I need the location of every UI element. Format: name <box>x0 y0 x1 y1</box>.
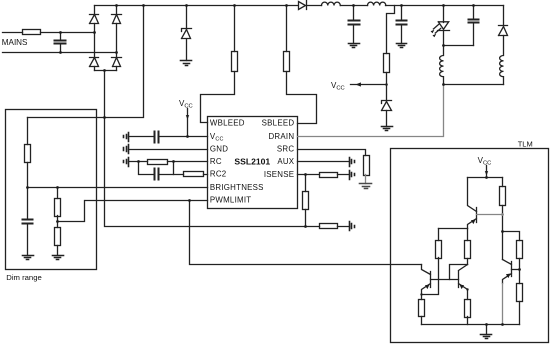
junction node (401.5,5.5) <box>400 4 403 7</box>
wire R-tlm4 column <box>438 229 440 241</box>
junction node (486.5,177.5) <box>485 176 488 179</box>
ground right isense bottom <box>350 222 355 231</box>
wire rc row <box>129 161 208 163</box>
LED D7 <box>438 22 450 31</box>
wire cap4 link <box>444 45 474 47</box>
ground right isense row <box>350 171 355 180</box>
capacitor X-cap C1 <box>60 33 62 53</box>
svg-text:WBLEED: WBLEED <box>210 119 245 128</box>
wire tlm ground stem <box>486 325 488 335</box>
resistor R-sbleed column <box>286 6 288 52</box>
wire sbleed bend <box>287 72 317 124</box>
wire transformer bottom link <box>444 84 504 86</box>
ground under ZD1 <box>181 61 192 66</box>
junction node (305.5,226.5) <box>304 225 307 228</box>
wire tlm5 to T3 collector node <box>467 259 469 265</box>
svg-text:BRIGHTNESS: BRIGHTNESS <box>210 183 264 192</box>
junction node (60.5,32.5) <box>59 31 62 34</box>
wire rc parallel drop <box>139 162 174 175</box>
ground under ZD2 <box>382 127 393 131</box>
transistor T4 <box>503 260 512 284</box>
capacitor C-rc <box>155 169 159 180</box>
wire tlm top rail <box>468 177 503 179</box>
resistor R-tlm3 <box>517 284 523 302</box>
capacitor C4 <box>473 6 475 46</box>
wire dim resistor top <box>27 118 29 145</box>
wire top HV rail <box>95 5 504 7</box>
Vcc arrow into VCC pin <box>187 109 189 137</box>
junction node (443.5,45.5) <box>442 44 445 47</box>
svg-text:DRAIN: DRAIN <box>268 132 294 141</box>
resistor fusible mains <box>23 30 41 35</box>
wire dim node <box>27 163 29 220</box>
svg-text:RC2: RC2 <box>210 170 227 179</box>
wire T4 emitter gray <box>502 284 504 325</box>
ground under C3 <box>397 44 407 48</box>
svg-text:SBLEED: SBLEED <box>262 119 295 128</box>
wire T1 base gray <box>477 214 503 216</box>
wire aux row <box>298 161 350 163</box>
resistor R-vcc feed <box>384 54 390 73</box>
resistor R-isense1 <box>320 173 338 178</box>
junction node (104.5,70.5) <box>103 69 106 72</box>
junction node (421.5,294.5) <box>420 293 422 295</box>
resistor R-wbleed column <box>234 6 236 52</box>
junction node (94.5,32.5) <box>93 31 96 34</box>
wire tlm4 to T2 emitter <box>422 258 439 295</box>
wire T4 base link <box>512 269 520 271</box>
transistor T1 <box>468 208 477 229</box>
junction node (57.5,187.5) <box>56 186 59 189</box>
transistor T2 <box>422 265 431 295</box>
svg-text:AUX: AUX <box>277 157 294 166</box>
svg-text:VCC: VCC <box>210 132 224 142</box>
zener diode ZD2 vcc <box>382 101 392 111</box>
wire mains top line <box>3 32 95 34</box>
junction node (173.5,161.5) <box>172 160 175 163</box>
TLM box <box>391 149 549 343</box>
wire tlm3 to rail <box>519 302 521 325</box>
wire isense divider bottom <box>305 210 307 227</box>
wire src row <box>298 150 366 156</box>
wire T2 T3 base line <box>431 279 459 281</box>
wire tlm input drop <box>190 201 422 265</box>
wire isense divider drop <box>305 175 307 192</box>
capacitor C3 <box>401 6 403 44</box>
wire tlm emitters link <box>439 228 468 230</box>
diode D2 <box>112 15 122 24</box>
capacitor C-vcc <box>155 132 159 143</box>
IC SSL2101 box <box>208 117 298 209</box>
wire long drop to isense net <box>105 118 306 227</box>
svg-text:GND: GND <box>210 145 228 154</box>
transistor T3 <box>459 265 468 300</box>
svg-text:MAINS: MAINS <box>2 38 28 47</box>
junction node (116.5,52.5) <box>115 51 118 54</box>
junction node (502.5,324.5) <box>501 323 504 326</box>
wire bridge center tap down <box>104 71 106 118</box>
ground left vcc row <box>124 133 129 142</box>
junction node (104.5,117.5) <box>103 116 106 119</box>
wire isense row <box>298 174 350 176</box>
wire T2 emitter column <box>421 295 423 300</box>
junction node (186.5,5.5) <box>185 4 188 7</box>
diode D4 <box>112 58 122 67</box>
svg-text:Dim range: Dim range <box>6 273 41 282</box>
wire tlm7 to rail <box>467 317 469 325</box>
ground left rc row <box>124 158 129 167</box>
junction node (143.5,5.5) <box>142 4 145 7</box>
resistor R-tlm4 <box>436 241 442 259</box>
resistor R-tlm1 <box>500 187 506 206</box>
junction node (187.5,136.5) <box>186 135 189 138</box>
wire dim cap to ground <box>27 224 29 256</box>
ground under C2 <box>349 44 360 48</box>
Vcc arrow TLM <box>486 166 488 178</box>
wire T1 collector <box>468 178 477 212</box>
diode D6 column <box>503 6 505 26</box>
resistor R-dim1 <box>25 145 31 163</box>
resistor R-src <box>364 156 370 176</box>
ground src <box>360 184 372 189</box>
diode D1 <box>90 15 99 24</box>
svg-text:VCC: VCC <box>179 99 193 110</box>
diode D5 on rail <box>299 1 307 10</box>
resistor R-dim3 <box>55 228 61 246</box>
wire bridge right leg <box>116 6 118 71</box>
junction node (353.5,5.5) <box>352 4 355 7</box>
wire brightness row <box>28 187 208 189</box>
resistor R-rc <box>148 160 168 165</box>
junction gray T1 base node (502.5,214.5) <box>501 213 504 216</box>
resistor R-isense2 <box>303 192 309 210</box>
wire pwmlimit row <box>86 200 208 202</box>
wire tlm6 to rail <box>421 317 423 325</box>
junction node (443.5,84.5) <box>442 83 445 86</box>
wire mains bottom line <box>3 52 117 54</box>
ground dim divider <box>53 256 64 260</box>
junction node (234.5,5.5) <box>233 4 236 7</box>
wire bridge minus link <box>28 6 144 118</box>
wire step to aux column <box>387 6 395 54</box>
LED arrows <box>433 24 440 33</box>
wire isense bottom row <box>306 226 350 228</box>
wire aux column to vcc node <box>386 73 388 102</box>
junction node (57.5,221.5) <box>56 220 59 223</box>
svg-text:SRC: SRC <box>277 145 294 154</box>
junction node (27.5,187.5) <box>26 186 29 189</box>
wire T3 column <box>467 229 469 241</box>
diode D3 <box>90 58 99 67</box>
capacitor C2 after L1 <box>353 6 355 44</box>
svg-text:VCC: VCC <box>331 81 345 92</box>
junction node (116.5,5.5) <box>115 4 118 7</box>
junction node (189.5,200.5) <box>188 199 191 202</box>
wire dim r3 to ground <box>57 246 59 255</box>
junction node (486.5,324.5) <box>485 323 488 326</box>
ground left gnd row <box>124 145 129 154</box>
wire tlm bottom rail <box>422 324 520 326</box>
inductor secondary winding <box>500 36 504 85</box>
junction node (286.5,5.5) <box>285 4 288 7</box>
junction node (502.5,231.5) <box>501 230 504 233</box>
junction node (519.5,269.5) <box>518 268 521 271</box>
zener diode ZD1 column <box>186 6 188 61</box>
Dim range box <box>6 110 97 270</box>
resistor R-dim2 <box>55 199 61 217</box>
wire bridge left leg <box>94 6 96 71</box>
wire T3 emitter resistor <box>465 300 471 318</box>
junction node (467.5,289.5) <box>466 288 468 290</box>
svg-text:TLM: TLM <box>518 139 533 148</box>
svg-text:ISENSE: ISENSE <box>264 170 294 179</box>
junction node (305.5,174.5) <box>304 173 307 176</box>
resistor R-rc2 <box>184 172 204 177</box>
wire tlm right link <box>503 232 520 241</box>
resistor R-isense3 <box>320 224 338 229</box>
inductor L2 <box>368 2 386 5</box>
wire bridge bottom join <box>95 70 117 72</box>
wire divider tap <box>58 201 85 228</box>
wire gnd row <box>129 149 208 151</box>
inductor primary winding <box>440 46 444 85</box>
wire drain gray link <box>298 85 444 137</box>
capacitor C-dim <box>23 220 33 224</box>
resistor R-tlm6 <box>419 300 425 317</box>
wire R-tlm1 column <box>502 178 504 187</box>
resistor R-tlm5 <box>465 241 471 259</box>
LED column wire <box>443 6 445 46</box>
wire src resistor to ground (gray) <box>365 175 367 184</box>
wire vcc row <box>129 136 208 138</box>
wire zener to ground <box>386 111 388 127</box>
junction node (473.5,5.5) <box>472 4 475 7</box>
junction node (60.5,52.5) <box>59 51 62 54</box>
inductor L1 <box>322 2 341 5</box>
svg-text:VCC: VCC <box>478 156 492 167</box>
junction node (443.5,5.5) <box>442 4 445 7</box>
wire tlm2 to base node <box>519 259 521 284</box>
ground right aux row <box>350 158 355 167</box>
Vcc arrow label mid right <box>351 84 387 86</box>
wire T3 diode connect <box>450 265 468 280</box>
junction node (138.5,161.5) <box>137 160 140 163</box>
svg-text:RC: RC <box>210 157 222 166</box>
wire divider drop <box>57 188 59 199</box>
svg-text:SSL2101: SSL2101 <box>234 156 270 166</box>
svg-text:PWMLIMIT: PWMLIMIT <box>210 196 251 205</box>
ground dim cap <box>23 256 34 260</box>
wire rc2 row <box>174 174 208 176</box>
ground TLM <box>481 335 492 339</box>
resistor R-tlm2 <box>517 241 523 259</box>
wire tlm1 to T4 <box>502 206 504 260</box>
wire wbleed bend <box>201 72 235 123</box>
